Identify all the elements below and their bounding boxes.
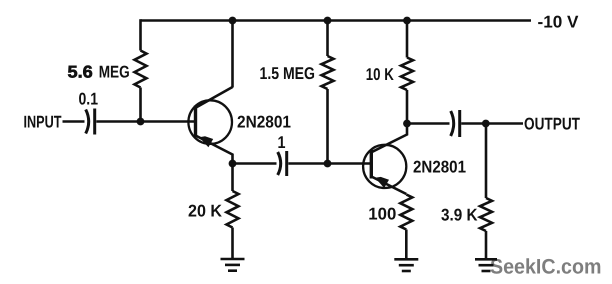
svg-text:2N2801: 2N2801 bbox=[237, 112, 291, 131]
node Q1 emitter junction bbox=[229, 160, 237, 168]
wire Q1 collector to rail bbox=[231, 21, 234, 88]
svg-text:3.9 K: 3.9 K bbox=[441, 205, 478, 224]
resistor R2 1.5 MEG bbox=[326, 21, 329, 57]
node input/R1 junction bbox=[137, 118, 145, 126]
wire R1 top lead bbox=[139, 19, 142, 50]
node Q2 collector junction bbox=[403, 120, 411, 128]
node rail junction Q1 collector bbox=[229, 17, 237, 25]
svg-text:INPUT: INPUT bbox=[24, 113, 62, 132]
wire input lead bbox=[63, 120, 85, 123]
capacitor C2 1 interstage coupling bbox=[278, 152, 281, 175]
node base line / R2 junction bbox=[324, 160, 332, 168]
node output / R6 junction bbox=[482, 120, 490, 128]
capacitor C3 output coupling bbox=[451, 111, 454, 136]
wire C3 to output bbox=[461, 122, 523, 125]
resistor R3 10 K bbox=[406, 21, 409, 58]
wire Q2 collector to C3 bbox=[407, 122, 450, 125]
svg-text:20 K: 20 K bbox=[188, 201, 223, 220]
svg-text:10 K: 10 K bbox=[366, 65, 395, 84]
capacitor C1 0.1 input coupling bbox=[86, 110, 89, 134]
ground for R4 bbox=[221, 258, 245, 261]
wire R1 bottom lead bbox=[139, 88, 142, 122]
ground for R5 bbox=[394, 258, 418, 261]
wire top supply rail bbox=[141, 19, 532, 22]
wire C1 to Q1 base bbox=[96, 120, 194, 123]
svg-text:2N2801: 2N2801 bbox=[413, 157, 466, 176]
wire Q1 emitter to C2 bbox=[233, 162, 277, 165]
ground for R6 bbox=[475, 258, 497, 261]
resistor R5 100 bbox=[400, 195, 412, 230]
transistor Q2 2N2801 bbox=[363, 145, 406, 188]
svg-text:100: 100 bbox=[368, 204, 396, 223]
svg-text:SeekIC.com: SeekIC.com bbox=[490, 256, 602, 279]
node rail junction R3 bbox=[403, 17, 411, 25]
resistor R1 5.6 MEG bbox=[135, 51, 147, 88]
svg-text:1.5 MEG: 1.5 MEG bbox=[260, 64, 316, 83]
svg-text:0.1: 0.1 bbox=[79, 90, 99, 109]
svg-text:1: 1 bbox=[278, 133, 286, 152]
transistor Q1 2N2801 bbox=[188, 100, 232, 144]
wire C2 to Q2 base bbox=[288, 162, 370, 165]
svg-text:MEG: MEG bbox=[99, 62, 130, 81]
node rail junction R2 bbox=[324, 17, 332, 25]
resistor R4 20 K bbox=[231, 164, 234, 192]
svg-text:5.6: 5.6 bbox=[68, 62, 93, 81]
resistor R6 3.9 K bbox=[485, 124, 488, 199]
svg-text:-10 V: -10 V bbox=[538, 13, 580, 32]
svg-text:OUTPUT: OUTPUT bbox=[524, 115, 580, 134]
